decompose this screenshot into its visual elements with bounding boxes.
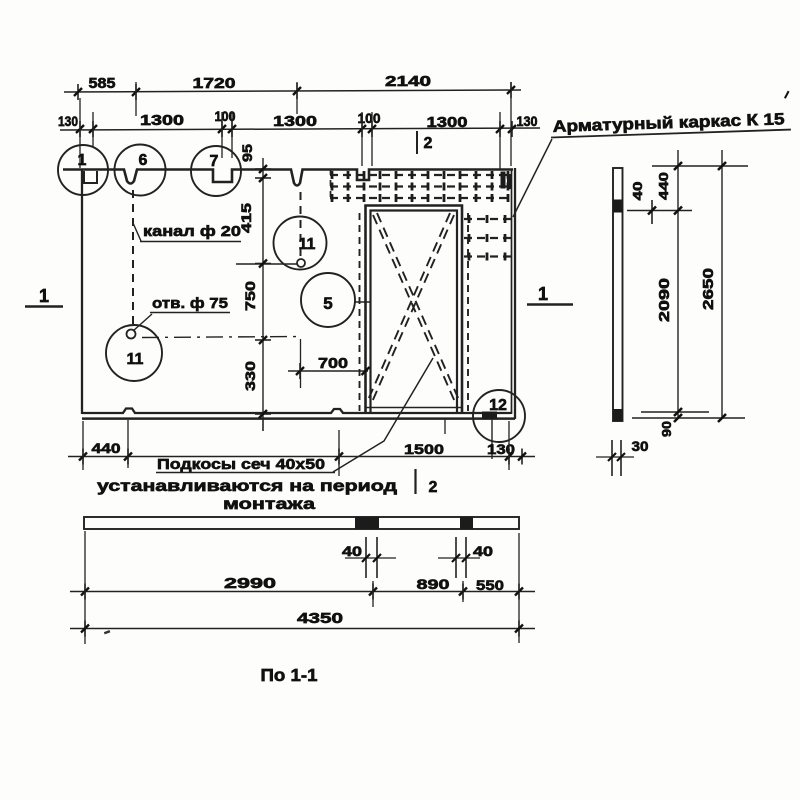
extension for 700 dim	[300, 339, 302, 388]
brace dashed leg A2	[377, 213, 459, 400]
side view dark band middle	[613, 200, 623, 213]
side thickness dim line	[596, 456, 634, 458]
dim tick 2990-row x=519	[518, 584, 520, 600]
reinforcement zone right block	[464, 218, 511, 220]
extension x=445 below	[444, 419, 446, 434]
leader circle 5 to door edge	[355, 301, 371, 303]
svg-text:1: 1	[78, 152, 87, 169]
section bar jamb fill left	[355, 517, 379, 530]
extension below circle 12	[491, 419, 493, 459]
dim tick row1 x=297	[296, 83, 298, 99]
panel bottom edge upper line	[82, 409, 511, 414]
svg-text:1300: 1300	[273, 114, 317, 130]
dim tick y=414	[255, 413, 271, 415]
extension line x=136	[135, 82, 137, 116]
dim tick row2 x=93	[92, 121, 94, 137]
svg-text:2990: 2990	[224, 576, 276, 592]
side dim slash (722,418)	[718, 414, 726, 422]
svg-text:440: 440	[656, 172, 671, 200]
underline line 1	[156, 472, 335, 474]
section mark 2 top bar	[416, 131, 418, 154]
svg-text:5: 5	[323, 294, 332, 313]
section mark 1 left underline	[25, 305, 63, 308]
svg-text:585: 585	[89, 76, 116, 92]
side dim slash (678,418)	[674, 414, 682, 422]
extension line x=297	[296, 82, 298, 114]
svg-text:750: 750	[242, 281, 258, 311]
anchor cluster top-right corner	[501, 172, 506, 189]
extension x=373	[372, 581, 374, 607]
dim tick row2 x=372	[371, 121, 373, 137]
svg-text:1300: 1300	[427, 115, 468, 131]
panel left edge	[81, 169, 83, 414]
dim tick row2 x=222	[221, 121, 223, 137]
svg-text:6: 6	[139, 152, 148, 169]
detail circle 11 right	[274, 217, 327, 270]
svg-text:1720: 1720	[193, 76, 236, 92]
svg-text:монтажа: монтажа	[223, 496, 316, 513]
svg-text:550: 550	[476, 577, 504, 593]
svg-text:2650: 2650	[701, 268, 717, 310]
svg-text:415: 415	[238, 203, 254, 233]
extension x=519	[518, 533, 520, 643]
detail circle 1	[58, 145, 108, 195]
svg-text:890: 890	[417, 576, 450, 592]
panel right edge inner	[511, 169, 513, 414]
detail circle 6	[115, 145, 166, 196]
reinforcement cross ticks (top band)	[331, 171, 334, 179]
dim tick y=263.5	[255, 263, 271, 265]
svg-text:130: 130	[487, 442, 515, 457]
svg-text:1: 1	[39, 286, 49, 306]
extension x=83 below	[82, 421, 84, 470]
dim tick bottom x=128	[127, 449, 129, 465]
svg-text:100: 100	[358, 110, 381, 126]
svg-text:11: 11	[299, 236, 316, 253]
panel right edge outer	[514, 168, 516, 419]
detail circle 12	[473, 390, 525, 442]
leader to hole	[133, 314, 152, 331]
extension x=128 below	[127, 420, 129, 468]
extension line x=222	[221, 112, 223, 158]
dim tick 2990-row x=463	[462, 584, 464, 600]
dim line 2990 row	[70, 591, 535, 593]
dim tick row2 x=362	[361, 121, 363, 137]
section bar jamb fill right	[460, 517, 473, 530]
extension line x=232	[231, 112, 233, 158]
dim tick 4350 left	[84, 621, 86, 637]
dim tick row2 x=500	[499, 121, 501, 137]
extension x=85 bar to dims	[84, 531, 86, 644]
side dim vline 2650	[721, 150, 723, 418]
corner step detail (circle 1)	[84, 171, 97, 183]
dashed channel line from notch (x=300)	[300, 192, 302, 257]
dim tick bottom x=522	[521, 449, 523, 465]
extension line x=500	[499, 112, 501, 169]
side view bar outline	[613, 168, 623, 421]
underline of 'отв. ф 75'	[150, 312, 230, 314]
centerline through left hole	[142, 337, 298, 338]
door frame inner	[371, 211, 458, 414]
svg-text:1300: 1300	[140, 113, 184, 129]
side small tick x=652	[651, 200, 653, 224]
small dim 40 left line	[345, 557, 396, 559]
dim line 700	[288, 370, 368, 372]
side dim top connector	[652, 165, 748, 167]
extension line x=372	[371, 112, 373, 166]
extension x=463	[462, 581, 464, 602]
panel top edge with notches	[63, 170, 513, 186]
dim tick bottom x=339	[338, 449, 340, 465]
dashed channel line from notch 6	[132, 190, 134, 328]
svg-text:12: 12	[489, 397, 507, 414]
side view dark band bottom	[613, 409, 623, 421]
svg-text:Подкосы сеч 40х50: Подкосы сеч 40х50	[157, 456, 325, 473]
panel bottom dark notch at circle 12	[482, 412, 497, 420]
dim tick row1 x=136	[135, 84, 137, 100]
dim tick row1 x=511	[510, 82, 512, 98]
label 'Арматурный каркас К 15' underlined	[550, 91, 791, 137]
dim tick 2990-row x=85	[84, 584, 86, 600]
svg-text:130: 130	[58, 114, 78, 129]
section bar outline	[84, 517, 519, 529]
brace dashed leg A1	[373, 215, 455, 402]
svg-text:40: 40	[342, 544, 362, 559]
section mark 2 bottom bar	[414, 469, 416, 494]
hidden edge dashed left of door	[359, 213, 361, 411]
leader from text to reinforcement zone	[513, 139, 552, 217]
svg-text:700: 700	[318, 356, 348, 372]
small dim 40 right tick a	[455, 537, 457, 578]
svg-text:440: 440	[92, 440, 121, 456]
svg-text:130: 130	[517, 114, 538, 129]
dim line 4350 row	[70, 628, 535, 630]
svg-text:Арматурный каркас К 15: Арматурный каркас К 15	[552, 110, 784, 136]
svg-text:2: 2	[429, 479, 438, 496]
leader to channel	[133, 223, 141, 241]
dimension line row1 (585/1720/2140)	[64, 90, 521, 92]
extension line x=80	[79, 98, 81, 168]
svg-text:2140: 2140	[385, 74, 431, 90]
door sill line	[366, 407, 462, 409]
door frame outer	[366, 206, 463, 414]
svg-text:2090: 2090	[657, 278, 673, 322]
side dim connector y=412	[641, 411, 709, 413]
dim tick row2 x=232	[231, 121, 233, 137]
extension x=339 below	[338, 430, 340, 476]
dim tick row2 x=80	[79, 121, 81, 137]
side dim vline 2090	[677, 150, 679, 418]
detail circle 11 left	[106, 325, 162, 381]
side dim slash (678,210.5)	[674, 207, 682, 215]
small dim 40 left slashes	[362, 554, 370, 562]
brace dashed leg B1	[372, 215, 454, 402]
dim tick y=169	[255, 168, 271, 170]
brace dashed leg B2	[368, 213, 450, 400]
dim tick 700 right	[365, 363, 367, 379]
svg-text:канал ф 20: канал ф 20	[143, 223, 241, 240]
svg-text:отв. ф 75: отв. ф 75	[152, 295, 228, 312]
leader from подкосы text to brace	[333, 358, 433, 472]
hole circle d75 (left)	[127, 330, 136, 339]
hidden edge dashed right of door	[467, 213, 469, 411]
svg-text:330: 330	[242, 361, 258, 391]
small dim 40 right line	[438, 557, 480, 559]
extension x=263 below panel	[262, 419, 264, 431]
svg-text:40: 40	[630, 182, 645, 201]
svg-text:30: 30	[632, 439, 649, 454]
svg-text:95: 95	[239, 144, 255, 162]
centerline through right hole	[236, 263, 297, 265]
dim tick row1 x=78	[77, 84, 79, 100]
speck near left	[104, 630, 110, 634]
extension line x=511	[510, 82, 512, 166]
small dim 40 right tick b	[465, 537, 467, 578]
reinforcement zone dashed rows (top band)	[330, 174, 511, 176]
side dim slash (678,412)	[674, 408, 682, 416]
extension line x=362	[361, 112, 363, 166]
dimension line row2 (130/1300/100...)	[60, 128, 540, 130]
small dim 40 right slashes	[452, 554, 460, 562]
vertical dim line x=263	[262, 158, 264, 431]
side thickness tick b	[620, 440, 622, 476]
svg-text:1: 1	[538, 284, 548, 304]
side thickness slashes	[608, 453, 616, 461]
side dim bottom connector y=418	[632, 417, 745, 419]
side dim slash (722,166)	[718, 162, 726, 170]
small dim 40 left tick b	[376, 537, 378, 578]
dim tick y=178	[255, 177, 271, 179]
dim tick 2990-row x=373	[372, 584, 374, 600]
svg-text:11: 11	[127, 351, 144, 368]
dim tick y=340	[255, 339, 271, 341]
hole circle (right)	[297, 259, 305, 267]
svg-text:4350: 4350	[297, 610, 343, 627]
side dim slash (678,166)	[674, 162, 682, 170]
detail circle 7	[191, 146, 241, 196]
reinforcement zone left boundary dashes	[330, 169, 332, 199]
extension x=509 below	[508, 421, 510, 470]
svg-text:2: 2	[424, 135, 433, 152]
svg-text:устанавливаются на период: устанавливаются на период	[97, 478, 397, 495]
dim tick bottom x=83	[82, 449, 84, 465]
svg-text:40: 40	[473, 544, 493, 559]
underline of 'канал ф 20'	[140, 241, 241, 243]
dim tick 4350 right	[518, 621, 520, 637]
dim tick row2 x=512	[511, 121, 513, 137]
dim tick bottom x=509	[508, 449, 510, 465]
svg-text:По 1-1: По 1-1	[261, 665, 318, 685]
dim tick 700 left	[299, 363, 301, 379]
panel bottom edge lower line	[82, 417, 515, 420]
side thickness tick a	[611, 440, 613, 476]
svg-text:90: 90	[659, 421, 674, 437]
svg-text:7: 7	[210, 153, 219, 170]
extension line x=93	[92, 112, 94, 147]
side dim slash (652,210.5)	[648, 207, 656, 215]
detail circle 5	[301, 273, 355, 327]
small dim 40 left tick a	[365, 537, 367, 578]
dim line below panel	[68, 456, 535, 458]
side dim connector y=210	[627, 210, 692, 212]
section mark 1 right underline	[527, 303, 573, 306]
svg-text:1500: 1500	[404, 441, 444, 457]
